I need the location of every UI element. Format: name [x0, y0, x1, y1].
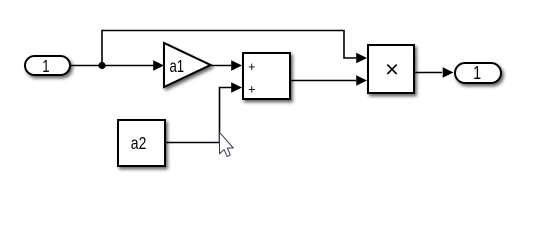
svg-text:a1: a1	[170, 57, 185, 76]
svg-text:+: +	[248, 82, 255, 96]
svg-text:+: +	[248, 60, 255, 74]
svg-text:1: 1	[473, 62, 481, 83]
svg-text:1: 1	[42, 57, 49, 76]
svg-text:a2: a2	[131, 135, 147, 154]
